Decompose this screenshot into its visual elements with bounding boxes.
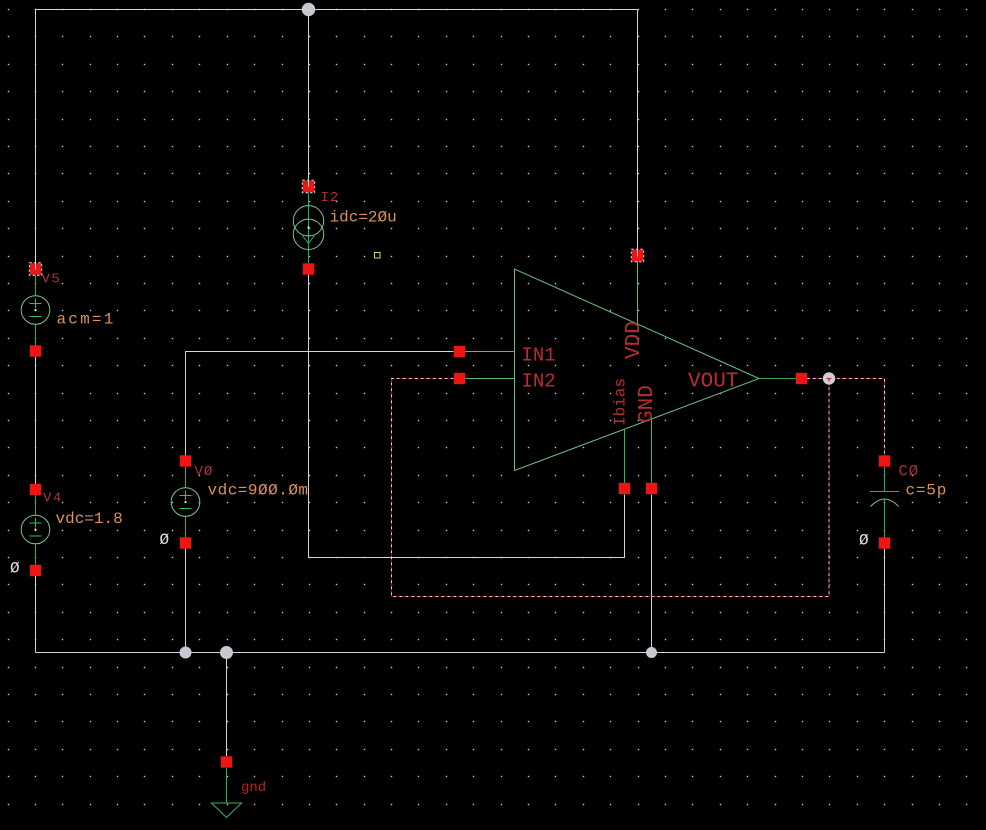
op-amp VDD stub bbox=[637, 261, 639, 324]
pin square GND bbox=[646, 483, 657, 494]
svg-text:Ibias: Ibias bbox=[612, 378, 630, 426]
op-amp IN2 stub bbox=[465, 378, 515, 380]
svg-text:V4: V4 bbox=[43, 491, 63, 507]
svg-text:VDD: VDD bbox=[623, 321, 646, 359]
wire I2 bottom to Ibias pin bbox=[309, 275, 625, 558]
voltage source V4 symbol bbox=[21, 495, 50, 565]
pin square I2 bottom bbox=[303, 263, 314, 274]
pin square IN2 bbox=[454, 373, 465, 384]
svg-text:VOUT: VOUT bbox=[688, 371, 738, 394]
pin square Ibias bbox=[619, 483, 630, 494]
node top rail junction bbox=[302, 3, 315, 16]
node V0 bottom junction bbox=[180, 647, 192, 659]
wire I2 top stub bbox=[308, 10, 310, 182]
current source I2 symbol bbox=[293, 193, 323, 264]
pin square V5 bottom bbox=[30, 345, 41, 356]
op-amp U0 triangle bbox=[515, 269, 760, 471]
op-amp GND stub bbox=[651, 420, 653, 484]
wire right vertical (top rail to VDD pin) bbox=[637, 10, 639, 251]
pin square V4 bottom bbox=[30, 565, 41, 576]
node gnd junction bbox=[220, 646, 233, 659]
wire selected net IN2 feedback (dark red base) bbox=[392, 379, 830, 597]
svg-text:idc=2Øu: idc=2Øu bbox=[330, 209, 397, 227]
svg-text:VØ: VØ bbox=[195, 464, 214, 480]
pin square VDD bbox=[631, 249, 643, 262]
pin square VOUT bbox=[796, 373, 807, 384]
svg-text:I2: I2 bbox=[321, 190, 340, 206]
pin square V4 top bbox=[30, 484, 41, 495]
wire gnd stem bbox=[226, 653, 228, 757]
svg-text:c=5p: c=5p bbox=[906, 482, 948, 500]
wire left vertical (top rail to V5) bbox=[35, 10, 37, 265]
svg-text:Ø: Ø bbox=[160, 531, 170, 549]
wire V5 to V4 bbox=[35, 356, 37, 484]
wire selected net VOUT to C0 (dark red base) bbox=[807, 379, 885, 456]
voltage source V0 symbol bbox=[171, 467, 200, 538]
op-amp IN1 stub bbox=[465, 351, 515, 353]
svg-text:Ø: Ø bbox=[10, 560, 20, 578]
capacitor C0 symbol bbox=[870, 467, 899, 538]
wire V4 to bottom rail bbox=[35, 576, 37, 653]
svg-text:GND: GND bbox=[636, 385, 659, 423]
wire V0 bottom to rail bbox=[185, 549, 187, 653]
svg-text:vdc=1.8: vdc=1.8 bbox=[56, 510, 123, 528]
wire bottom rail bbox=[36, 652, 885, 654]
pin square V0 top bbox=[180, 455, 191, 466]
svg-text:IN1: IN1 bbox=[522, 345, 556, 367]
pin square gnd bbox=[221, 756, 232, 767]
pin square IN1 bbox=[454, 346, 465, 357]
svg-text:acm=1: acm=1 bbox=[57, 311, 116, 329]
svg-text:gnd: gnd bbox=[241, 780, 266, 796]
wire selected net VOUT to C0 (white dashes) bbox=[807, 379, 885, 456]
wire GND pin to rail bbox=[651, 495, 653, 653]
pin square V0 bottom bbox=[180, 537, 191, 548]
pin square C0 top bbox=[879, 455, 890, 466]
pin square C0 bottom bbox=[879, 537, 890, 548]
pin square I2 top bbox=[302, 180, 314, 193]
wire C0 bottom to rail bbox=[884, 549, 886, 653]
marker small yellow square bbox=[375, 253, 381, 259]
op-amp VOUT stub bbox=[759, 378, 802, 380]
node VOUT junction bbox=[823, 372, 835, 384]
op-amp Ibias stub bbox=[624, 430, 626, 484]
svg-text:vdc=9ØØ.Øm: vdc=9ØØ.Øm bbox=[208, 482, 309, 500]
svg-text:CØ: CØ bbox=[899, 463, 920, 481]
pin square V5 top bbox=[29, 262, 41, 275]
ground symbol gnd bbox=[212, 768, 242, 818]
svg-text:IN2: IN2 bbox=[522, 371, 556, 393]
node GND-rail junction bbox=[646, 647, 657, 658]
wire selected net IN2 feedback (white dashes) bbox=[392, 379, 830, 597]
wire V0 top to IN1 bbox=[186, 352, 454, 456]
svg-text:V5: V5 bbox=[42, 272, 62, 288]
wire top rail bbox=[36, 9, 638, 11]
svg-text:Ø: Ø bbox=[859, 532, 869, 550]
voltage source V5 symbol bbox=[21, 275, 50, 346]
